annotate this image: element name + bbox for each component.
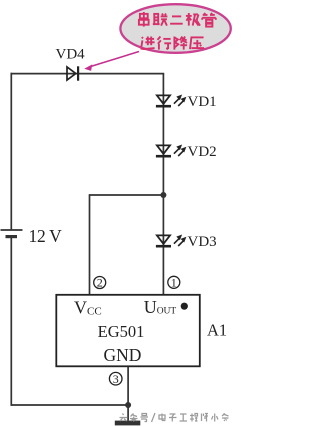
wire bottom horizontal [11, 404, 129, 406]
callout tail arrow [84, 52, 139, 71]
wire right vertical [162, 74, 164, 295]
子 [169, 414, 177, 422]
极 [186, 13, 200, 26]
wire top horizontal [11, 73, 165, 75]
行 [158, 37, 172, 50]
watermark 头条号/电子工程师小冬 [120, 413, 229, 422]
node dot at Uout [181, 303, 188, 310]
svg-text:VD2: VD2 [188, 144, 217, 160]
小 [212, 414, 219, 422]
callout text line2: 进行降压 [141, 37, 205, 50]
junction node at VD2/branch [160, 192, 166, 198]
二 [170, 16, 183, 23]
svg-text:1: 1 [171, 276, 177, 290]
callout balloon [120, 4, 230, 53]
程 [190, 414, 198, 422]
条 [130, 414, 138, 422]
号 [141, 414, 149, 422]
svg-text:VD4: VD4 [56, 47, 86, 63]
LED VD2 [156, 145, 187, 157]
冬 [222, 414, 229, 422]
进 [141, 37, 155, 50]
slash [152, 413, 156, 422]
降 [174, 37, 187, 50]
串 [139, 12, 149, 27]
管 [202, 13, 216, 27]
diode VD4 [67, 66, 78, 80]
pin 3 number [109, 372, 122, 386]
op-amp U1 IC EG501 box [56, 295, 200, 367]
wire left vertical upper [10, 73, 12, 230]
svg-text:VD3: VD3 [188, 234, 217, 250]
电 [159, 414, 166, 421]
svg-text:EG501: EG501 [98, 322, 145, 341]
wire branch horizontal to pin 2 [90, 194, 165, 196]
battery GB 12V [1, 230, 23, 237]
wire pin 3 vertical [127, 366, 129, 421]
LED VD3 [156, 235, 187, 247]
联 [153, 14, 168, 26]
师 [202, 414, 209, 422]
junction node bottom [125, 402, 131, 408]
callout text line1: 串联二极管 [139, 12, 216, 27]
svg-text:3: 3 [113, 372, 119, 386]
svg-text:VD1: VD1 [188, 94, 217, 110]
svg-text:2: 2 [97, 276, 103, 290]
工 [180, 414, 188, 421]
wire pin 2 vertical [89, 194, 91, 295]
wire left vertical lower [10, 237, 12, 406]
pin 2 number [94, 276, 106, 290]
头 [120, 414, 128, 422]
svg-text:A1: A1 [207, 320, 227, 339]
压 [190, 37, 204, 49]
LED VD1 [156, 95, 187, 107]
svg-text:GND: GND [104, 345, 142, 365]
ground [115, 421, 141, 426]
svg-text:12 V: 12 V [29, 226, 63, 246]
pin 1 number [168, 276, 180, 290]
